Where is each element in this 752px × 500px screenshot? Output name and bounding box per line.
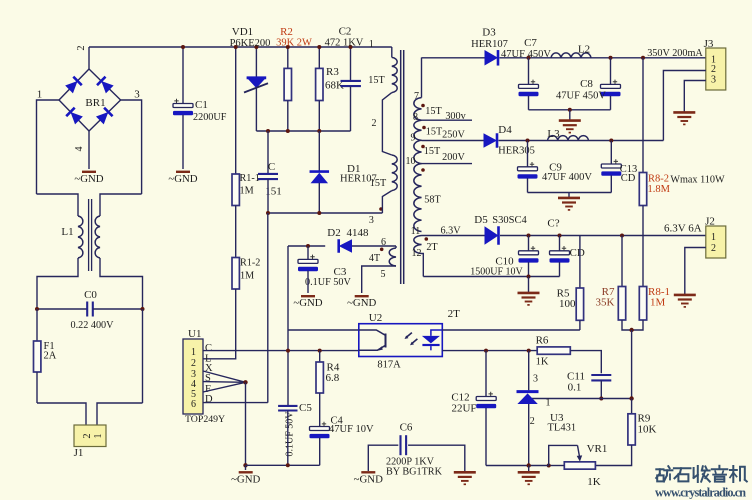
svg-text:D4: D4 <box>498 124 512 136</box>
svg-text:0.1UF 50V: 0.1UF 50V <box>305 277 351 288</box>
junction <box>35 307 39 311</box>
wire C10 down <box>528 262 530 276</box>
phasing dot <box>421 145 425 149</box>
svg-text:6.8: 6.8 <box>326 372 340 384</box>
ground earth (250V filter) <box>558 198 580 210</box>
wire bridge pin4 to gnd <box>88 131 90 169</box>
wire R5 to U2 <box>579 320 581 330</box>
junction <box>599 397 603 401</box>
svg-text:R8-2: R8-2 <box>648 174 669 185</box>
resistor R8-1 <box>639 287 646 321</box>
svg-text:35K: 35K <box>596 297 615 309</box>
junction <box>484 349 488 353</box>
svg-text:1.8M: 1.8M <box>648 184 671 195</box>
wire R1-2 to U1 pin L <box>203 289 236 359</box>
capacitor C11 0.1 <box>591 375 611 380</box>
wire VR1 wiper link <box>549 445 578 465</box>
wire bus to C-151 <box>267 131 269 174</box>
svg-text:C5: C5 <box>299 402 312 414</box>
svg-text:350V 200mA: 350V 200mA <box>647 48 703 59</box>
junction <box>527 56 531 60</box>
wire J3 pin2 to 250V rail <box>663 71 705 141</box>
wire node to R9 <box>631 399 633 414</box>
wire 250V rail from pin9 <box>422 140 484 142</box>
svg-text:U2: U2 <box>369 312 382 324</box>
junction <box>286 463 290 467</box>
svg-text:D: D <box>205 394 213 405</box>
svg-text:R1-1: R1-1 <box>240 173 260 184</box>
svg-text:47UF 400V: 47UF 400V <box>542 172 592 183</box>
connector J1 <box>74 425 106 447</box>
wire 6.3V rail from pin11 <box>422 235 485 237</box>
svg-text:J1: J1 <box>74 447 84 459</box>
wire VR1 left <box>549 465 565 467</box>
ground earth at C6 <box>454 472 476 484</box>
wire rail to C1 <box>182 47 184 104</box>
wire 6.3V rail <box>500 235 706 237</box>
junction <box>527 234 531 238</box>
resistor R9 <box>628 414 635 445</box>
svg-text:3: 3 <box>369 215 374 226</box>
svg-text:1: 1 <box>191 347 196 358</box>
svg-text:2: 2 <box>372 118 377 129</box>
svg-text:1M: 1M <box>650 297 666 309</box>
ground earth J2 <box>674 295 696 307</box>
wire drain bus (transformer pin 3) <box>268 212 382 214</box>
wire C2 to bus <box>350 86 352 131</box>
svg-text:3: 3 <box>533 374 538 385</box>
wire U2 collector to R5 <box>442 329 580 331</box>
junction <box>318 349 322 353</box>
capacitor C8 47UF 450V <box>601 80 621 97</box>
junction <box>286 129 290 133</box>
junction <box>286 45 290 49</box>
wire control node to D2 <box>288 245 325 247</box>
svg-text:VD1: VD1 <box>232 26 253 38</box>
junction <box>317 129 321 133</box>
ground ~GND below C1 <box>168 172 197 185</box>
svg-text:4T: 4T <box>369 253 381 264</box>
svg-text:3: 3 <box>134 89 140 101</box>
wire 350V rail from pin7 <box>422 57 485 59</box>
phasing dot <box>421 168 425 172</box>
ground earth (350V filter) <box>559 121 581 133</box>
ground earth J3 pin3 <box>673 112 695 124</box>
junction <box>254 45 258 49</box>
wire R8-2 to R8-1 (crosses rails) <box>642 206 644 287</box>
wire source node down <box>245 382 247 465</box>
wire U1 pin F <box>203 382 246 392</box>
ground earth (6.3V) <box>518 293 540 305</box>
bridge BR1 diamond <box>59 69 121 131</box>
svg-text:2: 2 <box>191 358 196 369</box>
junction <box>527 463 531 467</box>
svg-text:www.crystalradio.cn: www.crystalradio.cn <box>655 486 746 500</box>
wire to C9 <box>527 141 529 167</box>
junction source node <box>243 380 247 384</box>
wire to earth <box>528 277 530 293</box>
wire C1 to gnd <box>182 115 184 169</box>
wire rail to C2 <box>350 47 352 80</box>
junction <box>609 139 613 143</box>
svg-text:C1: C1 <box>195 99 208 111</box>
wire feedback down <box>631 330 633 399</box>
capacitor C0 <box>87 302 93 317</box>
wire rail to R1-1 <box>235 47 237 174</box>
inductor L1 right winding <box>95 216 100 258</box>
transformer primary winding 15T lower <box>392 155 397 191</box>
capacitor C2 472 1KV <box>341 81 361 86</box>
svg-text:~GND: ~GND <box>354 473 383 485</box>
inductor L2 <box>551 53 591 58</box>
phasing dot primary <box>379 207 383 211</box>
transformer secondary 15T (pin9-10) <box>414 140 422 163</box>
transformer core line <box>403 50 405 284</box>
wire to C10 <box>528 236 530 251</box>
svg-text:D5: D5 <box>474 214 488 226</box>
junction <box>527 349 531 353</box>
svg-text:2200UF: 2200UF <box>193 112 227 123</box>
wire D1 to drain bus <box>318 183 320 213</box>
svg-text:2T: 2T <box>448 308 461 320</box>
wire U1 pin S <box>203 381 246 384</box>
capacitor C? CD <box>550 246 570 263</box>
junction <box>306 244 310 248</box>
resistor R7 <box>618 287 625 321</box>
svg-text:VR1: VR1 <box>587 443 608 455</box>
svg-text:200V: 200V <box>442 152 465 163</box>
svg-text:2T: 2T <box>426 242 438 253</box>
wire R6 node to U3 cathode <box>528 351 530 391</box>
svg-text:U1: U1 <box>188 328 201 340</box>
svg-text:C: C <box>205 343 212 354</box>
capacitor C6 2200P 1KV <box>401 435 407 455</box>
potentiometer VR1 1K <box>564 462 595 469</box>
resistor R3 <box>316 68 323 100</box>
svg-text:2: 2 <box>711 64 716 75</box>
wire aux top <box>395 246 397 248</box>
capacitor C5 0.1UF 50V <box>278 406 297 411</box>
resistor R4 <box>316 362 323 393</box>
wire bus to D1 <box>318 131 320 171</box>
svg-text:~GND: ~GND <box>231 473 260 485</box>
svg-text:C?: C? <box>547 218 559 230</box>
wire right leg down <box>142 309 144 403</box>
wire C13 down <box>610 175 612 192</box>
svg-text:39K 2W: 39K 2W <box>276 38 312 49</box>
svg-text:C2: C2 <box>339 26 352 38</box>
wire to gnd <box>245 465 247 470</box>
wire to J1 pin <box>37 403 86 425</box>
wire VD1 to snubber bus <box>255 88 257 131</box>
connector J2 <box>706 226 726 258</box>
wire to earth <box>569 110 571 120</box>
resistor R2 <box>284 68 291 100</box>
wire C5 down <box>287 411 289 466</box>
junction <box>234 45 238 49</box>
wire to C0 <box>37 308 87 310</box>
junction <box>317 211 321 215</box>
wire to L1 right winding <box>100 194 142 216</box>
wire R2 to bus <box>287 101 289 132</box>
junction <box>558 234 562 238</box>
svg-text:D2: D2 <box>327 227 340 239</box>
wire top DC rail <box>89 46 392 48</box>
svg-text:0.22 400V: 0.22 400V <box>70 320 114 331</box>
svg-text:HER305: HER305 <box>498 146 535 157</box>
svg-text:TL431: TL431 <box>548 423 577 434</box>
svg-text:15T: 15T <box>424 146 441 157</box>
svg-text:R6: R6 <box>536 335 549 347</box>
svg-text:L3: L3 <box>547 128 560 140</box>
transformer secondary 58T (pin10-11) <box>414 164 422 232</box>
wire feedback node line <box>532 398 632 400</box>
wire J2 pin2 to earth <box>685 248 706 295</box>
svg-text:4148: 4148 <box>347 227 370 239</box>
svg-text:~GND: ~GND <box>347 297 376 309</box>
svg-text:~GND: ~GND <box>74 173 103 185</box>
wire F1 to J1 <box>36 372 38 403</box>
wire to C7 <box>528 58 530 85</box>
wire bridge pin3 right leg <box>121 100 142 194</box>
wire rail to R3 <box>318 47 320 68</box>
wire R1-1 to R1-2 <box>235 206 237 258</box>
diode D1 HER107 <box>310 172 330 184</box>
wire to C13 <box>610 141 612 165</box>
svg-text:L1: L1 <box>61 226 73 238</box>
resistor R5 <box>576 288 583 320</box>
svg-text:9: 9 <box>411 133 416 144</box>
wire C7-C8 ground bus <box>529 109 611 111</box>
wire C7 down <box>528 96 530 110</box>
svg-text:R1-2: R1-2 <box>240 258 260 269</box>
wire C12 down <box>485 408 487 466</box>
capacitor C10 1500UF 10V <box>519 246 539 263</box>
transformer core line <box>400 50 402 284</box>
ground ~GND at C6 <box>354 472 383 485</box>
transformer secondary 15T (pin7-8) <box>414 98 422 121</box>
svg-text:250V: 250V <box>442 130 465 141</box>
capacitor C1 2200UF <box>173 99 193 116</box>
wire to earth <box>528 466 530 472</box>
wire C6 to earth <box>408 445 465 472</box>
svg-text:P6KE200: P6KE200 <box>230 38 271 49</box>
wire to U2 collector <box>288 329 359 331</box>
svg-text:1: 1 <box>93 434 104 439</box>
svg-text:15T: 15T <box>425 106 442 117</box>
transformer primary winding 15T upper <box>392 57 397 92</box>
svg-text:S30SC4: S30SC4 <box>492 215 527 226</box>
wire control node to C5 <box>287 330 289 405</box>
wire C0 to right leg <box>93 308 143 310</box>
svg-text:10K: 10K <box>638 424 657 436</box>
wire to cap CD <box>559 236 561 251</box>
svg-text:300v: 300v <box>445 111 466 122</box>
svg-text:C7: C7 <box>524 37 537 49</box>
junction <box>243 463 247 467</box>
phasing dot <box>425 237 429 241</box>
svg-text:6.3V: 6.3V <box>440 226 461 237</box>
svg-text:~GND: ~GND <box>168 173 197 185</box>
wire drain to transformer <box>267 213 269 403</box>
bridge diode bottom-right <box>96 108 113 125</box>
junction <box>629 396 633 400</box>
svg-text:BY BG1TRK: BY BG1TRK <box>386 467 443 478</box>
wire primary gnd to C6 <box>368 445 398 471</box>
svg-text:6: 6 <box>191 399 196 410</box>
wire rail to VD1 <box>255 47 257 78</box>
wire bottom secondary bus <box>486 465 549 467</box>
svg-text:1M: 1M <box>240 271 254 282</box>
svg-text:47UF 10V: 47UF 10V <box>329 424 374 435</box>
wire L1 right to C0 loop <box>100 258 143 309</box>
svg-text:15T: 15T <box>368 75 385 86</box>
wire primary to pin 3 <box>382 191 391 213</box>
svg-text:0.1: 0.1 <box>568 382 582 394</box>
wire control node vertical <box>287 246 289 330</box>
junction <box>609 56 613 60</box>
junction <box>641 56 645 60</box>
svg-text:2: 2 <box>82 434 93 439</box>
diode D5 S30SC4 <box>485 226 499 245</box>
wire C9-C13 ground bus <box>528 192 612 194</box>
wire secondary pin 7 lead <box>421 58 423 98</box>
IC U1 TOP249Y <box>183 339 203 414</box>
wire R3 to bus <box>318 101 320 132</box>
junction <box>526 139 530 143</box>
wire L1 left to C0 loop <box>37 258 78 309</box>
wire U1 pin C bus <box>203 350 359 352</box>
svg-text:R2: R2 <box>280 26 293 38</box>
wire 200V tap <box>422 163 473 165</box>
junction <box>620 234 624 238</box>
wire C4 down <box>319 438 321 466</box>
wire rail to R2 <box>287 47 289 68</box>
connector J3 <box>706 48 726 90</box>
svg-text:22UF: 22UF <box>451 403 476 415</box>
wire to C8 <box>610 58 612 85</box>
optocoupler U2 817A <box>359 324 443 357</box>
wire R6 to C11 <box>570 351 601 374</box>
VR1 wiper arrow <box>578 445 580 457</box>
wire U1 pin X <box>203 371 246 382</box>
capacitor C9 47UF 400V <box>518 162 538 179</box>
fuse F1 <box>34 341 41 372</box>
phasing dot <box>422 126 426 130</box>
resistor R8-2 <box>639 173 646 206</box>
wire bus to R4 <box>319 351 321 362</box>
svg-text:2: 2 <box>711 243 716 254</box>
svg-text:1: 1 <box>369 39 374 50</box>
svg-text:12: 12 <box>412 248 422 259</box>
wire primary mid link <box>382 93 391 155</box>
resistor R1-1 <box>232 174 239 206</box>
wire R7/R8-1 junction <box>622 320 643 330</box>
svg-text:2: 2 <box>530 416 535 427</box>
wire bridge pin1 left leg <box>37 100 60 194</box>
svg-text:5: 5 <box>381 269 386 280</box>
capacitor C12 22UF <box>476 392 496 409</box>
junction <box>266 129 270 133</box>
phasing dot aux <box>380 248 384 252</box>
wire 6.3V to R7 <box>621 236 623 287</box>
wire rail into primary pin 1 <box>391 47 393 57</box>
svg-text:J2: J2 <box>705 216 715 228</box>
svg-text:Wmax 110W: Wmax 110W <box>670 175 725 186</box>
svg-text:L2: L2 <box>578 44 590 56</box>
svg-text:C: C <box>268 161 275 173</box>
svg-text:0.1UF 50V: 0.1UF 50V <box>285 411 296 457</box>
svg-text:472 1KV: 472 1KV <box>325 38 364 49</box>
svg-text:1: 1 <box>711 232 716 243</box>
wire 250V rail <box>499 140 664 142</box>
svg-text:1M: 1M <box>240 186 254 197</box>
svg-text:2: 2 <box>76 46 87 51</box>
wire source bus <box>246 464 320 466</box>
ground earth (feedback) <box>518 472 540 484</box>
junction <box>527 275 531 279</box>
inductor L1 left winding <box>78 216 83 258</box>
svg-text:100: 100 <box>559 298 576 310</box>
wire C3 to gnd <box>307 271 309 293</box>
svg-text:R3: R3 <box>326 66 339 78</box>
wire C-151 down <box>267 179 269 213</box>
wire C8 down <box>610 96 612 110</box>
svg-text:4: 4 <box>74 147 85 152</box>
wire R4 to C4 <box>319 393 321 427</box>
svg-text:1: 1 <box>37 89 43 101</box>
wire to C12 <box>485 351 487 397</box>
wire C11 down <box>600 380 602 398</box>
svg-text:CD: CD <box>570 247 585 259</box>
svg-text:817A: 817A <box>377 360 401 371</box>
svg-text:TOP249Y: TOP249Y <box>185 414 225 425</box>
bridge diode top-left <box>65 77 82 94</box>
svg-text:1K: 1K <box>587 476 601 488</box>
wire 300v tap <box>422 119 473 121</box>
capacitor C7 47UF 450V <box>519 80 539 97</box>
junction feedback <box>629 328 633 332</box>
wire to earth <box>568 193 570 198</box>
wire R9 to VR1 <box>595 445 631 466</box>
wire to L1 left winding <box>37 194 79 216</box>
svg-text:10: 10 <box>406 156 416 167</box>
svg-text:C8: C8 <box>580 78 593 90</box>
wire aux pin 5 to gnd <box>362 266 396 293</box>
ground ~GND source <box>231 472 260 485</box>
watermark chinese characters (drawn) <box>656 466 747 482</box>
ground ~GND below bridge <box>74 172 103 185</box>
ground ~GND below C3 <box>293 296 322 309</box>
inductor L3 <box>548 136 589 141</box>
junction <box>349 45 353 49</box>
wire U3 anode down <box>528 404 530 465</box>
resistor R1-2 <box>232 258 239 290</box>
junction <box>181 45 185 49</box>
L1 core line <box>88 199 90 271</box>
svg-text:CD: CD <box>621 173 636 184</box>
resistor R6 <box>537 347 570 354</box>
shunt regulator U3 TL431 <box>517 392 539 404</box>
transformer secondary 2T (pin11-12) <box>414 236 422 254</box>
wire to C3 <box>307 246 309 259</box>
svg-text:C0: C0 <box>84 289 97 301</box>
junction <box>286 349 290 353</box>
wire 350V to R8-2 <box>642 58 644 173</box>
svg-text:C6: C6 <box>400 422 413 434</box>
wire J3 pin3 to earth <box>684 81 706 113</box>
junction <box>547 464 551 468</box>
